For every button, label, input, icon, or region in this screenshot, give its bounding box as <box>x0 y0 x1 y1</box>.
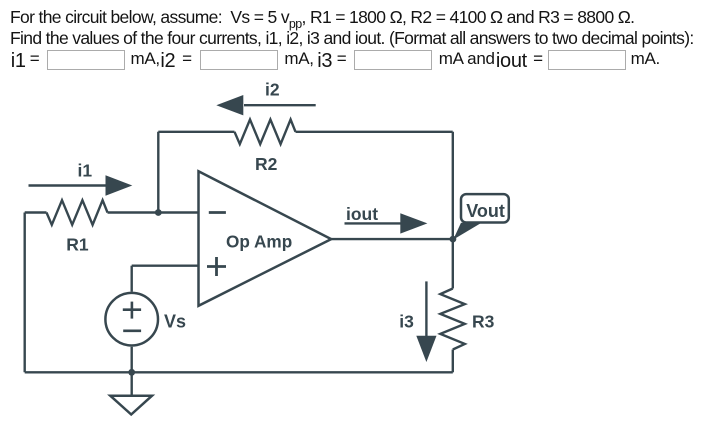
problem statement line 1 <box>10 7 694 49</box>
resistor R1 <box>47 200 108 225</box>
Vout callout box <box>461 194 509 222</box>
input box i1 <box>47 50 125 70</box>
wire: Vs bottom lead <box>130 347 132 373</box>
op-amp U1 <box>199 171 332 305</box>
ground <box>110 396 152 415</box>
i2 label <box>160 51 175 71</box>
svg-text:Vout: Vout <box>466 201 505 221</box>
node A: inverting input junction <box>155 209 162 216</box>
current arrow i3 <box>416 281 436 362</box>
wire: feedback left vertical <box>157 132 159 213</box>
node C: bottom rail junction <box>128 369 135 376</box>
Vout callout tail <box>453 223 481 240</box>
wire: output node down to R3 <box>452 239 454 288</box>
input box iout <box>548 50 626 70</box>
resistor R2 <box>235 120 296 145</box>
wire: ground stem <box>130 372 132 395</box>
answer row: i1 label <box>11 51 26 71</box>
wire: feedback top left segment <box>158 131 234 133</box>
wire: non-inverting input horizontal <box>132 265 198 267</box>
wire: non-inverting drop to Vs <box>130 266 132 292</box>
svg-text:iout: iout <box>346 204 378 224</box>
svg-text:i2: i2 <box>265 80 280 100</box>
current arrow iout <box>345 213 428 233</box>
wire: bottom rail <box>25 371 453 373</box>
input box i3 <box>354 50 432 70</box>
current arrow i1 <box>29 175 133 195</box>
wire: right vertical top to output node <box>452 132 454 239</box>
Vs - sign <box>123 329 141 332</box>
source Vs <box>105 293 158 346</box>
node B: output junction <box>450 236 457 243</box>
resistor R3 <box>440 289 465 350</box>
svg-text:Vs: Vs <box>164 312 186 332</box>
wire: R1 to inverting node <box>108 211 159 213</box>
svg-text:R3: R3 <box>472 312 495 332</box>
iout label <box>496 51 527 71</box>
Vs + sign <box>123 302 141 319</box>
wire: node to op-amp inverting input <box>158 211 198 213</box>
svg-text:i3: i3 <box>399 312 414 332</box>
svg-text:R1: R1 <box>66 235 89 255</box>
wire: feedback top right segment <box>296 131 453 133</box>
svg-text:Op Amp: Op Amp <box>226 232 292 252</box>
op-amp inverting - sign <box>209 211 226 214</box>
current arrow i2 <box>216 95 315 115</box>
i3 label <box>317 51 332 71</box>
wire: R3 bottom lead <box>452 350 454 373</box>
wire: op-amp output <box>331 238 453 240</box>
wire: left drop from R1 corner <box>24 213 26 373</box>
input box i2 <box>200 50 278 70</box>
svg-text:i1: i1 <box>78 160 93 180</box>
op-amp non-inverting + sign <box>207 257 226 276</box>
svg-text:R2: R2 <box>255 154 278 174</box>
wire: R1 left lead <box>25 211 47 213</box>
